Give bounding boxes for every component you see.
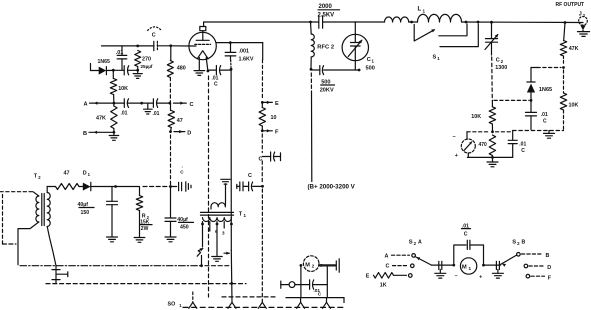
svg-text:F: F — [275, 130, 279, 136]
node E junction — [261, 101, 264, 104]
node A junction — [113, 102, 116, 105]
svg-text:B: B — [83, 131, 87, 137]
node cathode-bypass junction — [230, 68, 233, 71]
svg-text:S: S — [409, 240, 413, 246]
switch S1 pivot drop — [413, 25, 415, 41]
terminal A — [84, 102, 114, 108]
resistor 10K grid return — [110, 70, 128, 103]
svg-text:2.5KV: 2.5KV — [318, 12, 335, 18]
node meter junction — [491, 130, 494, 133]
svg-text:C: C — [464, 231, 468, 237]
svg-text:20KV: 20KV — [320, 87, 334, 93]
capacitor 500 20KV coupling — [311, 66, 359, 94]
svg-text:C: C — [521, 148, 525, 154]
capacitor .01 M1 bypass — [454, 223, 484, 265]
svg-text:M: M — [462, 265, 467, 271]
svg-text:D: D — [83, 171, 87, 177]
svg-text:1K: 1K — [380, 283, 387, 289]
svg-text:47: 47 — [64, 171, 70, 177]
tube V1 plate — [196, 39, 209, 41]
capacitor .01 detector — [526, 100, 548, 129]
contact B — [517, 253, 521, 257]
wire meter bottom — [467, 153, 512, 157]
wire EF dashed drop — [261, 134, 263, 153]
wire EF dashed drop 3 — [261, 189, 263, 302]
contact D — [524, 264, 528, 268]
capacitor .01 meter — [508, 131, 526, 158]
svg-text:C: C — [318, 291, 322, 297]
node grid-leak bottom junction — [136, 69, 139, 72]
svg-text:47K: 47K — [96, 116, 106, 122]
terminal B — [83, 131, 114, 137]
meter M1 — [455, 258, 483, 281]
svg-text:+: + — [479, 274, 482, 280]
wire AC input left dashed — [2, 195, 4, 246]
node M1 right junction — [482, 264, 485, 267]
node L1 tap return B — [477, 21, 480, 24]
wire 270 to ground — [137, 67, 139, 74]
capacitor feedthrough lower pair — [237, 173, 263, 191]
wire M2 bottom rail — [286, 298, 344, 303]
svg-text:D: D — [187, 131, 191, 137]
node C2 junction — [490, 21, 493, 24]
label C feedthrough small — [180, 164, 184, 175]
svg-text:RFC 2: RFC 2 — [317, 45, 334, 51]
wire meter dashed row left — [467, 131, 511, 133]
connector J2 output — [556, 2, 590, 36]
inductor L1 tank coil — [418, 7, 462, 23]
wire C2 dashed drop — [491, 57, 494, 100]
capacitor C feedthrough upper — [259, 152, 281, 162]
wire AC input upper dashed — [0, 191, 33, 193]
svg-text:RF OUTPUT: RF OUTPUT — [556, 2, 585, 8]
svg-text:C: C — [543, 119, 547, 125]
svg-text:+: + — [455, 153, 458, 159]
label B+ supply — [308, 184, 356, 191]
svg-text:R: R — [142, 213, 146, 219]
node shunt bottom junction — [491, 156, 494, 159]
wire AC input lower dash — [3, 243, 17, 245]
wire EF dashed drop 2 — [261, 161, 263, 183]
resistor 47 cathode — [168, 103, 183, 132]
svg-text:1N65: 1N65 — [98, 59, 111, 65]
wire plate lead — [216, 42, 262, 44]
svg-text:1.6KV: 1.6KV — [239, 57, 254, 63]
ground cathode — [194, 71, 205, 76]
jack key contact arrow — [224, 252, 230, 255]
diode 1N65 detector — [527, 68, 552, 101]
capacitor .01 grid — [116, 46, 127, 70]
wire bypass dotted lead — [230, 60, 232, 69]
terminal D — [174, 130, 191, 137]
svg-text:450: 450 — [180, 224, 189, 230]
capacitor 2000pF 2.5KV (plate blocking) — [311, 4, 356, 28]
wire plate-cap riser and top bus left segment — [204, 22, 311, 27]
svg-text:C: C — [386, 264, 390, 270]
capacitor C1 variable tune — [342, 22, 375, 72]
svg-text:.01: .01 — [116, 50, 124, 56]
ground B — [109, 132, 119, 140]
svg-text:L: L — [418, 7, 422, 13]
svg-text:10: 10 — [271, 115, 277, 121]
svg-text:3: 3 — [222, 231, 225, 236]
node screen feed junction — [169, 185, 172, 188]
terminal C switch — [386, 264, 409, 270]
capacitor C2 variable loading — [485, 22, 507, 71]
wire M1 to S2B — [484, 264, 501, 266]
svg-text:47: 47 — [177, 118, 183, 124]
capacitor .01 cathode bypass — [208, 66, 231, 88]
terminal A switch — [385, 253, 410, 259]
jack phones right — [336, 259, 339, 272]
wire shield dashed row mid — [46, 283, 246, 285]
svg-text:B: B — [522, 240, 526, 246]
resistor 47K bias — [96, 103, 117, 132]
node feedthrough junction — [261, 185, 264, 188]
tube V1 grid — [195, 43, 211, 45]
svg-text:E: E — [366, 274, 370, 280]
svg-text:480: 480 — [177, 66, 186, 72]
svg-text:C: C — [367, 57, 371, 63]
ground R2 — [134, 238, 145, 243]
lamp keying indicator — [197, 248, 203, 256]
contact A — [412, 254, 416, 258]
svg-text:C: C — [496, 58, 500, 64]
ground filter cap 1 — [107, 237, 118, 242]
svg-text:SO: SO — [168, 302, 176, 308]
ground T1 centre tap — [212, 257, 222, 262]
node C1 bottom junction — [358, 69, 361, 72]
node D junction — [169, 130, 172, 133]
svg-text:1: 1 — [469, 266, 472, 271]
node plate bypass junction — [229, 41, 232, 44]
inductor parasitic choke — [385, 17, 409, 22]
resistor R2 15K 2W — [136, 187, 152, 238]
terminal B switch — [522, 253, 550, 259]
node RFC2 bottom junction — [310, 68, 313, 71]
terminal F switch — [531, 275, 552, 281]
node F junction — [261, 129, 264, 132]
node diode junction — [112, 69, 115, 72]
svg-text:25µµf: 25µµf — [141, 64, 153, 69]
wire key dash-dot row — [20, 265, 231, 267]
wire T2 primary top — [33, 192, 39, 196]
wire T2 primary bottom — [18, 222, 39, 265]
ground detector — [544, 131, 555, 139]
connector SO1 socket row — [168, 292, 346, 308]
node C junction — [168, 102, 171, 105]
svg-text:−: − — [453, 135, 456, 141]
node cathode junction — [207, 70, 210, 73]
node diode bottom junction — [530, 99, 533, 102]
svg-text::: : — [182, 164, 183, 169]
svg-text:.01: .01 — [519, 141, 526, 147]
svg-text:.01: .01 — [153, 111, 160, 117]
wire keying stub — [91, 64, 99, 71]
svg-text:.01: .01 — [212, 75, 219, 81]
capacitor line filter bottom-left — [52, 266, 68, 284]
ground S2B side — [492, 273, 503, 278]
node key line junction — [200, 264, 203, 267]
svg-text:C: C — [152, 33, 156, 39]
wire grid bus — [102, 45, 189, 47]
capacitor bypass S2A side — [439, 261, 442, 273]
label S2A — [409, 240, 422, 247]
svg-text:M: M — [305, 262, 310, 268]
capacitor 40uF 150 filter — [78, 187, 118, 237]
svg-text:500: 500 — [366, 66, 375, 72]
wire shield dashed vertical — [208, 76, 210, 297]
terminal E — [262, 101, 279, 107]
node grid junction 2 — [169, 44, 172, 47]
tube V1 envelope — [189, 32, 216, 59]
wire T1 taps — [201, 222, 233, 256]
svg-text:A: A — [385, 253, 389, 259]
label S2B — [512, 240, 525, 247]
resistor 10K meter mult — [471, 100, 495, 131]
wire meter dashed row lower right — [513, 130, 564, 132]
node midcap junction — [140, 102, 143, 105]
capacitor .01 key line B — [142, 99, 170, 117]
ground key line — [144, 103, 153, 114]
svg-text:10K: 10K — [118, 86, 128, 92]
meter M2 — [303, 256, 319, 272]
capacitor 25pF series — [113, 66, 137, 75]
wire S1 tap upper — [439, 24, 467, 36]
wire D dashed drop — [170, 135, 172, 187]
wire screen dashed — [261, 60, 263, 100]
svg-text:A: A — [84, 102, 88, 108]
terminal F — [262, 129, 279, 135]
svg-text:47K: 47K — [569, 46, 579, 52]
node detector junction — [562, 66, 565, 69]
wire grid lead into tube — [189, 45, 196, 47]
wire lamp drop — [201, 256, 203, 266]
transformer T1 — [201, 202, 247, 222]
node filter cap junction — [114, 185, 117, 188]
node socket row junction — [230, 282, 233, 285]
capacitor .001 1.6KV plate bypass — [225, 43, 254, 63]
node choke/L1 junction — [409, 21, 418, 24]
svg-text:270: 270 — [142, 57, 151, 63]
ground meter — [487, 157, 498, 166]
svg-text:C: C — [214, 82, 218, 88]
capacitor .01 key line A — [114, 99, 142, 117]
svg-text:6: 6 — [215, 229, 218, 234]
resistor 480 screen — [167, 46, 186, 78]
node M1 left junction — [452, 264, 455, 267]
capacitor C osc trimmer — [148, 27, 162, 51]
resistor 470 meter shunt — [479, 135, 496, 157]
contact E — [409, 274, 413, 278]
diode 1N65 grid — [98, 59, 114, 75]
ground S2A side — [435, 273, 446, 278]
diode D1 rectifier — [79, 171, 96, 191]
terminal E switch — [366, 273, 407, 289]
wire S1 tap lower — [440, 24, 478, 47]
ground inverted above T1 — [221, 179, 230, 202]
wire S2A to meter — [432, 264, 454, 266]
svg-text:C: C — [248, 173, 252, 179]
svg-text:.01: .01 — [121, 111, 128, 117]
node grid junction 1 — [136, 45, 139, 48]
label S1 — [433, 55, 441, 62]
resistor 10 meter shunt — [259, 102, 276, 130]
svg-text:A: A — [418, 240, 422, 246]
capacitor .01 M2 — [301, 280, 327, 297]
wire M2 right riser — [326, 265, 328, 297]
tube V1 plate cap connector — [200, 27, 206, 41]
svg-text:1300: 1300 — [495, 65, 507, 71]
svg-text:470: 470 — [479, 142, 488, 148]
jack key plug left — [281, 281, 301, 288]
capacitor bypass S2B side — [496, 261, 499, 273]
terminal C — [174, 102, 194, 108]
switch S2B blade — [501, 255, 517, 267]
node L1 tap return A — [465, 21, 468, 24]
wire B+ line — [310, 73, 313, 182]
svg-text:(B+ 2000-3200 V: (B+ 2000-3200 V — [308, 184, 356, 191]
terminal D switch — [529, 265, 551, 271]
svg-text:150: 150 — [81, 210, 90, 216]
resistor 270 grid leak — [135, 51, 153, 70]
resistor 10K detector right — [560, 70, 578, 130]
svg-text:1N65: 1N65 — [539, 87, 552, 93]
svg-text:.001: .001 — [239, 48, 250, 54]
tube V1 cathode — [197, 51, 208, 71]
node M2 right junction — [319, 264, 335, 267]
contact C — [411, 264, 415, 268]
svg-text:B: B — [546, 253, 550, 259]
meter V1 indicator — [453, 132, 476, 159]
wire top bus to parasitic choke — [355, 21, 385, 23]
wire screen corner — [262, 43, 264, 60]
svg-text:D: D — [547, 265, 551, 271]
wire meter dashed row upper — [494, 99, 529, 101]
svg-text:.01: .01 — [541, 112, 548, 118]
node 47K junction — [564, 21, 567, 24]
svg-text:S: S — [512, 240, 516, 246]
wire T2 secondary top — [47, 187, 55, 193]
node B junction — [113, 131, 116, 134]
wire M2 left riser — [300, 264, 303, 298]
resistor 47K detector — [560, 23, 578, 66]
ground grid — [133, 74, 142, 79]
switch S1 blade — [414, 29, 435, 41]
wire T2 secondary bottom — [47, 227, 56, 266]
wire detector dashed left — [537, 67, 561, 69]
wire cathode riser down — [230, 69, 232, 250]
svg-text:S: S — [433, 55, 437, 61]
svg-text:T: T — [239, 212, 243, 218]
svg-text:C: C — [190, 102, 194, 108]
wire supply bus — [96, 186, 171, 188]
capacitor bypass with side ground — [171, 182, 192, 191]
svg-text:2W: 2W — [141, 226, 149, 232]
ground filter cap 2 — [165, 237, 176, 242]
node plate/RFC junction — [309, 21, 312, 24]
switch S2A blade — [415, 257, 431, 266]
wire cathode to socket — [230, 251, 233, 303]
capacitor 40uF 450 filter — [165, 187, 194, 237]
wire screen dashed drop — [169, 78, 171, 104]
svg-text:10K: 10K — [471, 114, 481, 120]
svg-text:E: E — [275, 101, 279, 107]
svg-text:10K: 10K — [569, 103, 579, 109]
inductor RFC2 — [311, 22, 335, 69]
transformer T2 — [34, 174, 50, 227]
resistor 47 rectifier — [56, 171, 80, 190]
wire L1 to output bus — [462, 21, 582, 24]
svg-text:−: − — [455, 274, 458, 280]
contact F — [526, 274, 530, 278]
